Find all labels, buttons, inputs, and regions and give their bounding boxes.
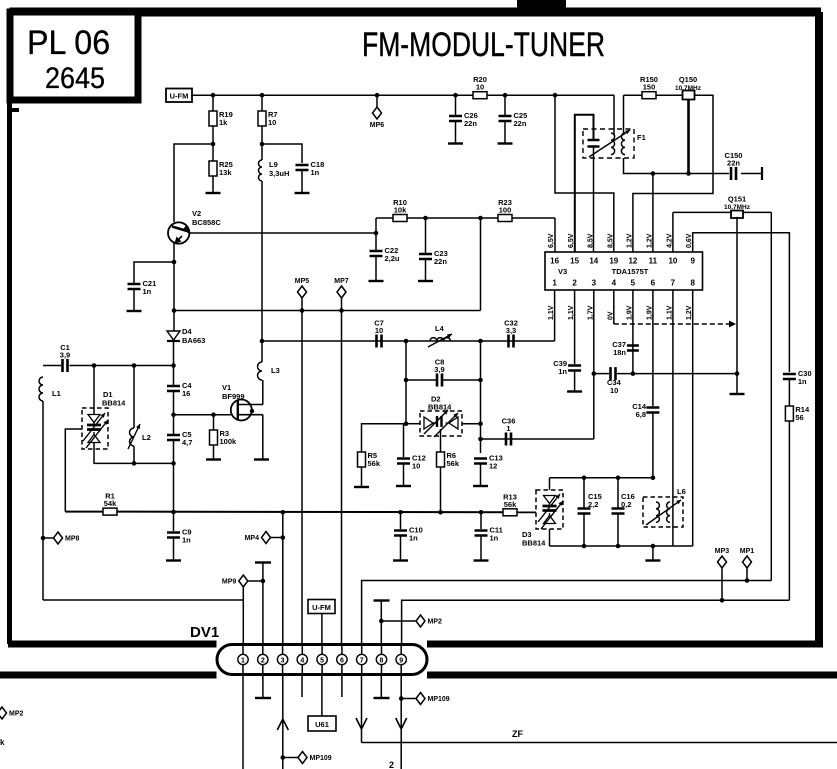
ground R5 xyxy=(354,486,369,488)
svg-text:12: 12 xyxy=(489,462,497,471)
node MP5 xyxy=(300,308,305,313)
node R10 C23 xyxy=(423,216,428,221)
wire osc top2 xyxy=(70,365,174,367)
wire C15 col2 xyxy=(583,515,585,547)
svg-text:TDA1575T: TDA1575T xyxy=(612,267,649,276)
wire MP3 stub xyxy=(721,568,723,600)
svg-text:L6: L6 xyxy=(677,487,686,496)
label L2 xyxy=(142,433,151,442)
capacitor C22 xyxy=(370,246,400,263)
schematic title FM-MODUL-TUNER xyxy=(362,26,605,64)
svg-text:MP4: MP4 xyxy=(245,535,260,542)
svg-text:22n: 22n xyxy=(464,119,477,128)
wire C25 gnd xyxy=(504,122,506,143)
label TDA1575T xyxy=(612,267,649,276)
wire D3 top xyxy=(549,478,551,490)
svg-text:MP109: MP109 xyxy=(310,755,332,762)
label D4 xyxy=(182,327,192,336)
node MP7 xyxy=(339,308,344,313)
capacitor C26 xyxy=(449,111,478,128)
label C34 xyxy=(607,378,622,387)
node pin3 tap xyxy=(281,510,286,515)
label V1 xyxy=(222,383,231,392)
wire demod top xyxy=(550,477,653,479)
capacitor C8 xyxy=(434,358,444,387)
node rail MP6 xyxy=(375,93,380,98)
arrow down pin9 xyxy=(396,718,407,729)
wire main line xyxy=(262,340,555,342)
wire R3 gnd xyxy=(213,445,215,459)
wire D2 left xyxy=(406,423,420,425)
wire pin3 below xyxy=(282,675,284,769)
terminator pin8 top xyxy=(374,599,390,601)
ground C23 xyxy=(418,280,433,282)
svg-text:MP2: MP2 xyxy=(9,711,24,718)
label C37 value xyxy=(613,348,626,357)
svg-text:6: 6 xyxy=(340,657,344,664)
svg-text:3,3: 3,3 xyxy=(506,326,516,335)
node R7 L9 C18 xyxy=(260,142,265,147)
diode D4 xyxy=(167,331,180,341)
test point MP7 xyxy=(334,278,349,298)
node C22 xyxy=(374,231,379,236)
wire R6 down xyxy=(440,467,442,512)
node MP109b tap xyxy=(399,696,404,701)
svg-text:1n: 1n xyxy=(182,536,191,545)
wire C9 link xyxy=(173,463,175,512)
inductor L4 xyxy=(430,338,450,341)
wire emitter rail xyxy=(174,310,481,312)
wire C21 link xyxy=(134,262,174,283)
test point MP4 xyxy=(245,532,271,544)
svg-text:2,2u: 2,2u xyxy=(385,254,400,263)
capacitor C150 xyxy=(725,151,743,180)
label L9 value xyxy=(269,169,289,178)
varactor diode D3 BB814 xyxy=(543,496,557,524)
svg-text:2: 2 xyxy=(389,760,394,769)
wire V1 drain xyxy=(262,380,264,405)
node C16 top xyxy=(616,476,621,481)
svg-text:22n: 22n xyxy=(514,119,527,128)
svg-text:BB814: BB814 xyxy=(102,399,126,408)
label C39 xyxy=(553,359,567,368)
svg-text:Q151: Q151 xyxy=(728,195,746,204)
wire C5 down xyxy=(173,441,175,463)
wire C10 col xyxy=(400,512,402,529)
test point MP1 xyxy=(740,548,755,568)
varactor D3 dashed box xyxy=(536,490,563,529)
wire pin8 below xyxy=(380,675,382,698)
wire R3 col xyxy=(213,415,215,430)
wire loop left xyxy=(623,95,625,135)
transistor V1 BF999 xyxy=(231,400,263,421)
ground C25 xyxy=(498,142,513,144)
resistor R10 xyxy=(393,198,407,222)
wire pin7 route xyxy=(362,581,772,646)
ground C11 xyxy=(474,559,489,561)
svg-text:100: 100 xyxy=(499,206,512,215)
connector through wires xyxy=(243,646,401,673)
wire D4 to C4 xyxy=(173,341,175,366)
wire C4-C5 xyxy=(173,392,175,435)
wire pin1 below xyxy=(242,675,244,769)
ground R3 xyxy=(206,458,221,460)
node main C32 xyxy=(478,339,483,344)
svg-text:U-FM: U-FM xyxy=(170,92,189,101)
wire pin3 col xyxy=(282,512,284,645)
wire pin6 col xyxy=(652,290,654,406)
label C15 value xyxy=(588,500,598,509)
svg-text:10k: 10k xyxy=(394,206,407,215)
label L6 xyxy=(677,487,686,496)
U-FM supply label box xyxy=(166,89,192,103)
wire C150 out xyxy=(741,173,762,175)
wire Q151 right down xyxy=(770,212,772,580)
svg-text:3: 3 xyxy=(281,657,285,664)
test point MP6 xyxy=(370,107,385,129)
wire pin5 below xyxy=(321,675,323,717)
svg-text:1,2V: 1,2V xyxy=(646,233,653,248)
wire L1 down xyxy=(42,401,44,600)
label C14 value xyxy=(636,410,646,419)
svg-text:PL 06: PL 06 xyxy=(27,24,110,62)
ground Q151 xyxy=(730,393,745,395)
svg-text:10: 10 xyxy=(610,386,618,395)
wire Q151 line xyxy=(673,211,771,213)
svg-text:1: 1 xyxy=(241,657,245,664)
svg-text:L3: L3 xyxy=(271,366,280,375)
label C34 value xyxy=(610,386,618,395)
label Q151 xyxy=(728,195,746,204)
svg-text:19: 19 xyxy=(609,257,618,266)
wire C23 gnd xyxy=(425,260,427,280)
label C15 xyxy=(588,492,602,501)
varactor D1 arrow2 xyxy=(86,420,108,448)
label C39 value xyxy=(558,367,567,376)
svg-text:1n: 1n xyxy=(490,534,499,543)
trimmer arrow F1 xyxy=(589,130,630,157)
label D3 xyxy=(522,530,532,539)
svg-text:56k: 56k xyxy=(447,459,460,468)
capacitor C4 xyxy=(167,381,192,398)
wire C150 link xyxy=(713,173,729,175)
label partial k xyxy=(0,738,5,747)
svg-text:6,8: 6,8 xyxy=(636,410,646,419)
svg-text:54k: 54k xyxy=(104,499,117,508)
wire C11 gnd xyxy=(480,537,482,560)
node C8 right xyxy=(478,378,483,383)
svg-text:0V: 0V xyxy=(607,311,614,320)
wire D1 tune tap xyxy=(65,429,82,512)
IC pin numbers xyxy=(550,257,695,288)
node R6 tap xyxy=(438,510,443,515)
svg-text:BA663: BA663 xyxy=(182,336,205,345)
svg-text:10: 10 xyxy=(375,326,383,335)
test point MP2 xyxy=(416,615,442,627)
svg-text:56k: 56k xyxy=(504,500,517,509)
wire C26 gnd xyxy=(455,122,457,143)
terminator pin2 bottom xyxy=(255,697,271,699)
svg-text:10.7MHz: 10.7MHz xyxy=(724,204,751,211)
node loop Q150 xyxy=(686,171,691,176)
capacitor C13 xyxy=(474,454,503,471)
resistor R1 xyxy=(103,492,117,515)
wire R14 down xyxy=(788,421,790,600)
svg-text:2645: 2645 xyxy=(45,62,105,96)
capacitor C21 xyxy=(128,279,157,296)
wire demod bottom xyxy=(550,545,693,547)
svg-text:16: 16 xyxy=(550,257,559,266)
wire Q150 stub xyxy=(687,100,690,174)
label D2 type xyxy=(428,403,452,412)
inductor F1 primary xyxy=(611,133,615,155)
wire R10 line xyxy=(376,217,555,219)
label C37 xyxy=(612,340,626,349)
inductor L1 xyxy=(39,377,43,401)
varactor diode D2 BB814 xyxy=(424,416,458,429)
node R23 xyxy=(478,216,483,221)
wire MP6 stub xyxy=(376,95,378,107)
wire R25 gnd xyxy=(212,176,214,192)
wire pin6 col xyxy=(341,311,343,646)
svg-text:56k: 56k xyxy=(368,459,381,468)
U-FM label box lower xyxy=(308,600,335,614)
wire pin9 below xyxy=(400,675,402,769)
svg-text:MP3: MP3 xyxy=(715,548,730,555)
wire R19-R25 xyxy=(212,126,214,161)
wire L6 gnd stub xyxy=(652,546,654,560)
svg-text:MP6: MP6 xyxy=(370,122,385,129)
capacitor C5 xyxy=(167,430,192,447)
varactor D2 arrow1 xyxy=(424,410,448,434)
node D2 left xyxy=(404,421,409,426)
label DV1 xyxy=(190,624,219,641)
node MP109a tap xyxy=(281,755,286,760)
wire C4 top xyxy=(173,366,175,387)
svg-text:4,2V: 4,2V xyxy=(666,233,673,248)
test point MP8 xyxy=(54,532,80,544)
label L1 xyxy=(52,389,61,398)
svg-text:6,5V: 6,5V xyxy=(568,233,575,248)
svg-text:3,9: 3,9 xyxy=(60,351,70,360)
resistor R14 xyxy=(785,405,810,422)
resistor R6 xyxy=(437,451,460,468)
varactor D2 dashed box xyxy=(420,411,462,436)
wire D3 bottom xyxy=(549,529,551,546)
wire pin6 below xyxy=(341,675,343,698)
IC pin voltage labels xyxy=(548,233,693,320)
ground C26 xyxy=(448,142,463,144)
connector DV1 pins 1-9 xyxy=(238,654,407,664)
ground R25 xyxy=(206,192,221,194)
resistor R19 xyxy=(209,110,233,127)
svg-text:10: 10 xyxy=(668,257,677,266)
wire D2 left2 xyxy=(362,424,407,452)
wire C11 col xyxy=(480,512,482,529)
node C36 tap xyxy=(478,437,483,442)
transistor V2 BC858C xyxy=(168,222,190,243)
svg-text:56: 56 xyxy=(795,413,803,422)
svg-text:1k: 1k xyxy=(219,118,228,127)
node C37 C34 xyxy=(631,371,636,376)
svg-text:13k: 13k xyxy=(219,168,232,177)
wire C36 riser xyxy=(481,438,594,440)
wire pin9 route xyxy=(693,233,790,372)
ground C10 xyxy=(393,559,408,561)
capacitor C11 xyxy=(475,526,503,543)
arrow pin4 to gnd xyxy=(729,321,736,328)
capacitor C32 xyxy=(504,319,518,348)
svg-text:MP5: MP5 xyxy=(295,278,310,285)
resistor R23 xyxy=(498,198,512,222)
varactor D1 dashed box xyxy=(82,408,108,449)
node rail pin13 drop xyxy=(553,93,558,98)
wire L2 col2 xyxy=(133,446,135,463)
test point MP2 outside xyxy=(0,707,24,719)
node MP2 tap xyxy=(379,619,384,624)
wire pin16 drop xyxy=(554,218,556,252)
label partial glyph bottom xyxy=(389,760,394,769)
wire C22 column xyxy=(375,218,377,251)
module bottom border right xyxy=(427,641,823,648)
wire pin1 to main line xyxy=(554,290,556,341)
wire C23 column xyxy=(425,218,427,254)
svg-text:0,6V: 0,6V xyxy=(686,233,693,248)
svg-text:2: 2 xyxy=(261,657,265,664)
wire D1 bottom xyxy=(94,443,174,463)
wire D2 right xyxy=(462,423,481,425)
svg-text:BC858C: BC858C xyxy=(192,218,221,227)
node R3 xyxy=(211,412,216,417)
wire C14 down xyxy=(652,414,654,478)
wire C16 col2 xyxy=(617,515,619,547)
filter F1 cap xyxy=(588,140,600,147)
capacitor C12 xyxy=(397,454,426,471)
wire pin4 col xyxy=(301,311,303,646)
test point MP109 right xyxy=(416,693,450,705)
wire pin4 below xyxy=(301,675,303,698)
svg-text:6: 6 xyxy=(651,279,656,288)
node rail R7 xyxy=(260,93,265,98)
node loop pin11 xyxy=(651,171,656,176)
wire pin7 col xyxy=(672,290,674,546)
svg-text:V3: V3 xyxy=(558,267,567,276)
wire C12 col xyxy=(403,424,405,457)
svg-text:MP8: MP8 xyxy=(65,536,80,543)
svg-text:L1: L1 xyxy=(52,389,61,398)
svg-text:7: 7 xyxy=(671,279,676,288)
U61 label box xyxy=(308,716,336,731)
svg-text:3,3uH: 3,3uH xyxy=(269,169,289,178)
ground C12 xyxy=(396,485,411,487)
svg-text:U-FM: U-FM xyxy=(312,603,331,612)
svg-text:8: 8 xyxy=(380,657,384,664)
node base V2 xyxy=(211,142,216,147)
test point MP109 lower xyxy=(298,752,332,764)
wire C18 link xyxy=(262,144,302,163)
wire D1 top xyxy=(93,366,95,415)
resistor R7 xyxy=(258,110,278,127)
test point MP9 xyxy=(222,575,248,587)
svg-text:15: 15 xyxy=(570,257,579,266)
resistor R150 xyxy=(640,75,658,99)
wire V2 emitter xyxy=(173,242,175,333)
svg-text:4: 4 xyxy=(300,657,304,664)
svg-text:1: 1 xyxy=(552,279,557,288)
label D2 xyxy=(431,395,441,404)
wire tuning line xyxy=(65,511,103,513)
inductor L6 coil1 xyxy=(656,502,659,522)
ground C21 xyxy=(127,310,142,312)
svg-text:1n: 1n xyxy=(798,377,807,386)
label L4 xyxy=(435,324,445,333)
wire MP7 stub xyxy=(341,298,343,311)
wire R23 node column xyxy=(480,218,482,311)
varactor D3 arrow2 xyxy=(541,501,563,529)
node MP1 tap xyxy=(745,578,750,583)
varactor diode D1 BB814 xyxy=(87,415,101,443)
label C16 xyxy=(621,492,635,501)
capacitor C37 xyxy=(627,346,639,351)
svg-text:k: k xyxy=(0,738,5,747)
resistor R5 xyxy=(358,451,381,468)
svg-text:MP9: MP9 xyxy=(222,579,237,586)
capacitor C25 xyxy=(499,111,528,128)
node C8 left xyxy=(404,378,409,383)
inductor L6 dashed box xyxy=(643,497,683,527)
svg-text:1n: 1n xyxy=(558,367,567,376)
inductor L3 xyxy=(258,362,263,380)
wire pin3 col xyxy=(593,290,595,439)
svg-text:4,7: 4,7 xyxy=(182,438,192,447)
svg-text:10: 10 xyxy=(268,118,276,127)
trimmer arrow L2 xyxy=(128,424,140,449)
varactor D3 arrow1 xyxy=(538,494,560,522)
resistor R3 xyxy=(210,429,238,446)
label V2 xyxy=(192,209,201,218)
wire C30-R14 xyxy=(788,380,790,406)
svg-text:100k: 100k xyxy=(220,437,238,446)
ground C22 xyxy=(369,280,384,282)
wire pin7 below xyxy=(361,675,363,743)
label F1 xyxy=(637,133,646,142)
wire D4 anode xyxy=(173,333,175,338)
svg-text:8,5V: 8,5V xyxy=(587,233,594,248)
label V3 xyxy=(558,267,567,276)
node C15 bot xyxy=(582,544,587,549)
ground V1 xyxy=(254,458,269,460)
wire C18 gnd xyxy=(301,171,303,192)
node C10 tap xyxy=(398,510,403,515)
wire C8 wire xyxy=(406,379,436,381)
wire pin8 col xyxy=(692,290,694,546)
capacitor C16 xyxy=(612,509,625,514)
svg-text:18n: 18n xyxy=(613,348,626,357)
wire tuning line2 xyxy=(117,511,536,514)
wire L9 down xyxy=(261,181,263,341)
svg-text:2,2: 2,2 xyxy=(588,500,598,509)
svg-text:150: 150 xyxy=(643,83,656,92)
svg-text:ZF: ZF xyxy=(512,729,523,739)
wire rail-pin13 xyxy=(555,95,614,252)
label L9 xyxy=(269,160,278,169)
capacitor C9 xyxy=(167,528,192,545)
label L3 xyxy=(271,366,280,375)
svg-text:L2: L2 xyxy=(142,433,151,442)
wire C13 gnd xyxy=(480,465,482,486)
wire C32 col xyxy=(480,341,482,453)
trimmer arrow L4 xyxy=(428,334,452,347)
